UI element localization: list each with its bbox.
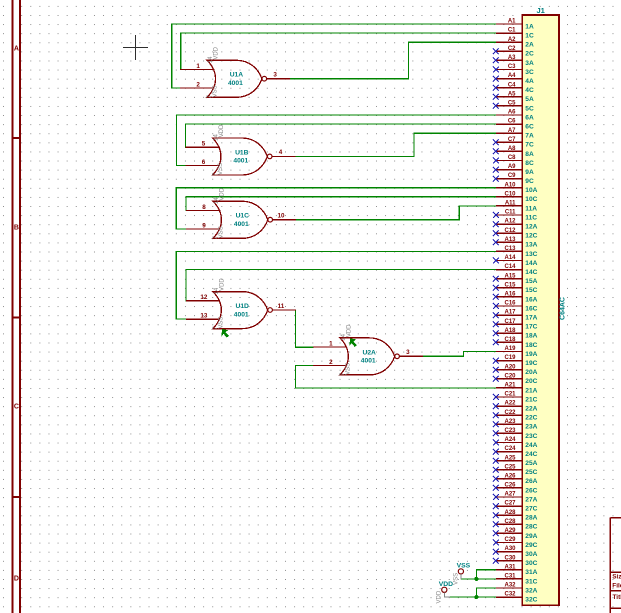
svg-text:5A: 5A <box>525 96 534 103</box>
svg-text:4001: 4001 <box>228 80 243 87</box>
svg-text:C26: C26 <box>504 483 516 489</box>
svg-text:C: C <box>14 404 19 411</box>
svg-text:14: 14 <box>208 56 214 63</box>
svg-text:25C: 25C <box>525 469 537 476</box>
svg-text:2: 2 <box>329 359 333 366</box>
svg-text:1C: 1C <box>525 33 534 40</box>
svg-text:26C: 26C <box>525 487 537 494</box>
svg-text:31A: 31A <box>525 569 537 576</box>
svg-text:C6: C6 <box>508 119 516 125</box>
svg-text:4A: 4A <box>525 78 534 85</box>
svg-text:C2: C2 <box>508 46 516 52</box>
svg-text:9C: 9C <box>525 178 534 185</box>
svg-text:11A: 11A <box>525 205 537 212</box>
svg-text:C17: C17 <box>504 319 516 325</box>
svg-text:A24: A24 <box>504 437 516 443</box>
svg-text:23A: 23A <box>525 424 537 431</box>
svg-text:9: 9 <box>202 222 206 229</box>
svg-text:23C: 23C <box>525 433 537 440</box>
svg-text:2A: 2A <box>525 42 534 49</box>
svg-text:C64AC: C64AC <box>560 297 567 320</box>
svg-text:3C: 3C <box>525 69 534 76</box>
svg-text:13A: 13A <box>525 242 537 249</box>
svg-text:28A: 28A <box>525 515 537 522</box>
svg-text:A16: A16 <box>504 292 516 298</box>
svg-text:3: 3 <box>406 349 410 356</box>
svg-text:25A: 25A <box>525 460 537 467</box>
svg-text:15C: 15C <box>525 287 537 294</box>
svg-text:10C: 10C <box>525 196 537 203</box>
svg-text:VSS: VSS <box>453 573 459 585</box>
svg-text:VSS: VSS <box>213 85 219 97</box>
svg-text:13C: 13C <box>525 251 537 258</box>
svg-text:U1A: U1A <box>230 72 244 79</box>
svg-text:C5: C5 <box>508 101 516 107</box>
svg-text:14: 14 <box>214 287 220 294</box>
svg-text:3: 3 <box>273 72 277 79</box>
svg-text:32A: 32A <box>525 587 537 594</box>
svg-text:U2A: U2A <box>363 349 377 356</box>
svg-text:24A: 24A <box>525 442 537 449</box>
svg-text:17C: 17C <box>525 324 537 331</box>
svg-text:6C: 6C <box>525 124 534 131</box>
svg-text:12A: 12A <box>525 224 537 231</box>
svg-text:4001: 4001 <box>233 158 248 165</box>
svg-text:29C: 29C <box>525 542 537 549</box>
svg-text:A20: A20 <box>504 364 516 370</box>
svg-text:A15: A15 <box>504 273 516 279</box>
svg-text:4001: 4001 <box>361 358 376 365</box>
svg-text:C30: C30 <box>504 555 516 561</box>
svg-text:C8: C8 <box>508 155 516 161</box>
svg-text:C16: C16 <box>504 301 516 307</box>
svg-text:4001: 4001 <box>234 221 249 228</box>
svg-text:VSS: VSS <box>219 226 225 238</box>
svg-text:A18: A18 <box>504 328 516 334</box>
svg-text:12C: 12C <box>525 233 537 240</box>
svg-text:A12: A12 <box>504 219 516 225</box>
svg-text:27A: 27A <box>525 496 537 503</box>
svg-text:10A: 10A <box>525 187 537 194</box>
svg-text:32C: 32C <box>525 597 537 604</box>
svg-text:14: 14 <box>341 333 347 340</box>
svg-text:VSS: VSS <box>345 363 351 375</box>
svg-text:A1: A1 <box>508 19 516 25</box>
svg-text:3A: 3A <box>525 60 534 67</box>
svg-text:30A: 30A <box>525 551 537 558</box>
svg-text:8A: 8A <box>525 151 534 158</box>
svg-text:VDD: VDD <box>346 324 352 337</box>
svg-text:6A: 6A <box>525 114 534 121</box>
svg-text:22A: 22A <box>525 406 537 413</box>
svg-text:A32: A32 <box>504 583 516 589</box>
svg-text:13: 13 <box>200 313 208 320</box>
svg-text:A: A <box>14 46 19 53</box>
svg-text:2C: 2C <box>525 51 534 58</box>
svg-text:VDD: VDD <box>219 278 225 291</box>
svg-text:A22: A22 <box>504 401 516 407</box>
svg-text:19A: 19A <box>525 351 537 358</box>
svg-text:A7: A7 <box>508 128 516 134</box>
svg-text:C27: C27 <box>504 501 516 507</box>
svg-text:A11: A11 <box>505 201 516 207</box>
svg-text:17A: 17A <box>525 315 537 322</box>
svg-text:D: D <box>14 576 19 583</box>
svg-text:A4: A4 <box>508 73 516 79</box>
svg-text:A2: A2 <box>508 37 516 43</box>
svg-text:C12: C12 <box>504 228 516 234</box>
svg-text:4C: 4C <box>525 87 534 94</box>
svg-text:7A: 7A <box>525 133 534 140</box>
svg-text:VSS: VSS <box>218 317 224 329</box>
svg-text:A10: A10 <box>504 182 516 188</box>
svg-text:15A: 15A <box>525 278 537 285</box>
svg-text:C20: C20 <box>504 373 516 379</box>
svg-text:VDD: VDD <box>437 590 443 603</box>
svg-text:C32: C32 <box>504 592 516 598</box>
svg-text:C28: C28 <box>504 519 516 525</box>
svg-text:VSS: VSS <box>218 163 224 175</box>
svg-text:21C: 21C <box>525 396 537 403</box>
svg-text:C14: C14 <box>504 264 516 270</box>
svg-text:20C: 20C <box>525 378 537 385</box>
svg-text:A31: A31 <box>504 564 516 570</box>
svg-text:File: File <box>612 582 621 589</box>
svg-text:C10: C10 <box>504 191 516 197</box>
svg-text:14A: 14A <box>525 260 537 267</box>
svg-text:C18: C18 <box>504 337 516 343</box>
svg-text:8C: 8C <box>525 160 534 167</box>
svg-text:16C: 16C <box>525 305 537 312</box>
svg-text:11C: 11C <box>525 214 537 221</box>
svg-text:10: 10 <box>277 213 285 220</box>
svg-text:19C: 19C <box>525 360 537 367</box>
svg-text:16A: 16A <box>525 296 537 303</box>
svg-text:9A: 9A <box>525 169 534 176</box>
svg-text:A23: A23 <box>504 419 516 425</box>
svg-text:C19: C19 <box>504 355 516 361</box>
svg-text:1A: 1A <box>525 23 534 30</box>
svg-text:12: 12 <box>200 294 208 301</box>
svg-text:14: 14 <box>214 134 220 141</box>
svg-text:C13: C13 <box>504 246 516 252</box>
svg-text:29A: 29A <box>525 533 537 540</box>
svg-text:B: B <box>14 225 19 232</box>
svg-text:21A: 21A <box>525 387 537 394</box>
svg-text:A27: A27 <box>504 492 516 498</box>
svg-text:C1: C1 <box>508 28 516 34</box>
svg-text:18A: 18A <box>525 333 537 340</box>
svg-text:14: 14 <box>214 197 220 204</box>
svg-text:24C: 24C <box>525 451 537 458</box>
svg-text:A26: A26 <box>504 473 516 479</box>
svg-text:18C: 18C <box>525 342 537 349</box>
svg-text:VSS: VSS <box>457 562 471 569</box>
svg-text:VDD: VDD <box>439 581 453 588</box>
svg-text:26A: 26A <box>525 478 537 485</box>
svg-text:C23: C23 <box>504 428 516 434</box>
svg-text:J1: J1 <box>537 6 545 15</box>
svg-text:A13: A13 <box>504 237 516 243</box>
svg-text:11: 11 <box>278 303 285 310</box>
svg-text:A8: A8 <box>508 146 516 152</box>
svg-text:1: 1 <box>196 63 200 70</box>
svg-text:A25: A25 <box>504 455 516 461</box>
svg-text:A6: A6 <box>508 110 516 116</box>
svg-text:A3: A3 <box>508 55 516 61</box>
svg-text:A9: A9 <box>508 164 516 170</box>
svg-text:14C: 14C <box>525 269 537 276</box>
svg-text:31C: 31C <box>525 578 537 585</box>
svg-text:C9: C9 <box>508 173 516 179</box>
svg-text:28C: 28C <box>525 524 537 531</box>
svg-text:Titl: Titl <box>613 594 621 601</box>
svg-text:C25: C25 <box>504 464 516 470</box>
svg-text:C4: C4 <box>508 82 516 88</box>
svg-text:C15: C15 <box>504 282 516 288</box>
svg-text:C24: C24 <box>504 446 516 452</box>
svg-text:A29: A29 <box>504 528 516 534</box>
svg-text:A30: A30 <box>504 546 516 552</box>
svg-text:22C: 22C <box>525 415 537 422</box>
svg-text:8: 8 <box>202 204 206 211</box>
svg-text:C7: C7 <box>508 137 516 143</box>
svg-text:6: 6 <box>202 159 206 166</box>
svg-text:2: 2 <box>196 81 200 88</box>
svg-text:U1B: U1B <box>235 149 249 156</box>
svg-text:5C: 5C <box>525 105 534 112</box>
svg-text:U1C: U1C <box>236 213 250 220</box>
svg-text:C11: C11 <box>505 210 516 216</box>
svg-text:20A: 20A <box>525 369 537 376</box>
svg-text:27C: 27C <box>525 506 537 513</box>
svg-text:C21: C21 <box>504 392 516 398</box>
svg-text:30C: 30C <box>525 560 537 567</box>
svg-text:C31: C31 <box>504 574 516 580</box>
svg-text:Siz: Siz <box>612 573 621 580</box>
svg-text:A19: A19 <box>504 346 516 352</box>
svg-text:A5: A5 <box>508 91 516 97</box>
svg-text:A14: A14 <box>504 255 516 261</box>
svg-text:VDD: VDD <box>219 124 225 137</box>
svg-text:C3: C3 <box>508 64 516 70</box>
svg-text:5: 5 <box>202 141 206 148</box>
svg-text:A28: A28 <box>504 510 516 516</box>
svg-text:4001: 4001 <box>234 311 249 318</box>
svg-text:VDD: VDD <box>220 187 226 200</box>
svg-text:7C: 7C <box>525 142 534 149</box>
svg-text:C22: C22 <box>504 410 516 416</box>
svg-text:A21: A21 <box>504 383 516 389</box>
svg-text:U1D: U1D <box>236 303 250 310</box>
svg-text:C29: C29 <box>504 537 516 543</box>
svg-text:VDD: VDD <box>214 46 220 59</box>
svg-text:4: 4 <box>279 149 283 156</box>
svg-text:1: 1 <box>329 341 333 348</box>
svg-text:A17: A17 <box>504 310 516 316</box>
